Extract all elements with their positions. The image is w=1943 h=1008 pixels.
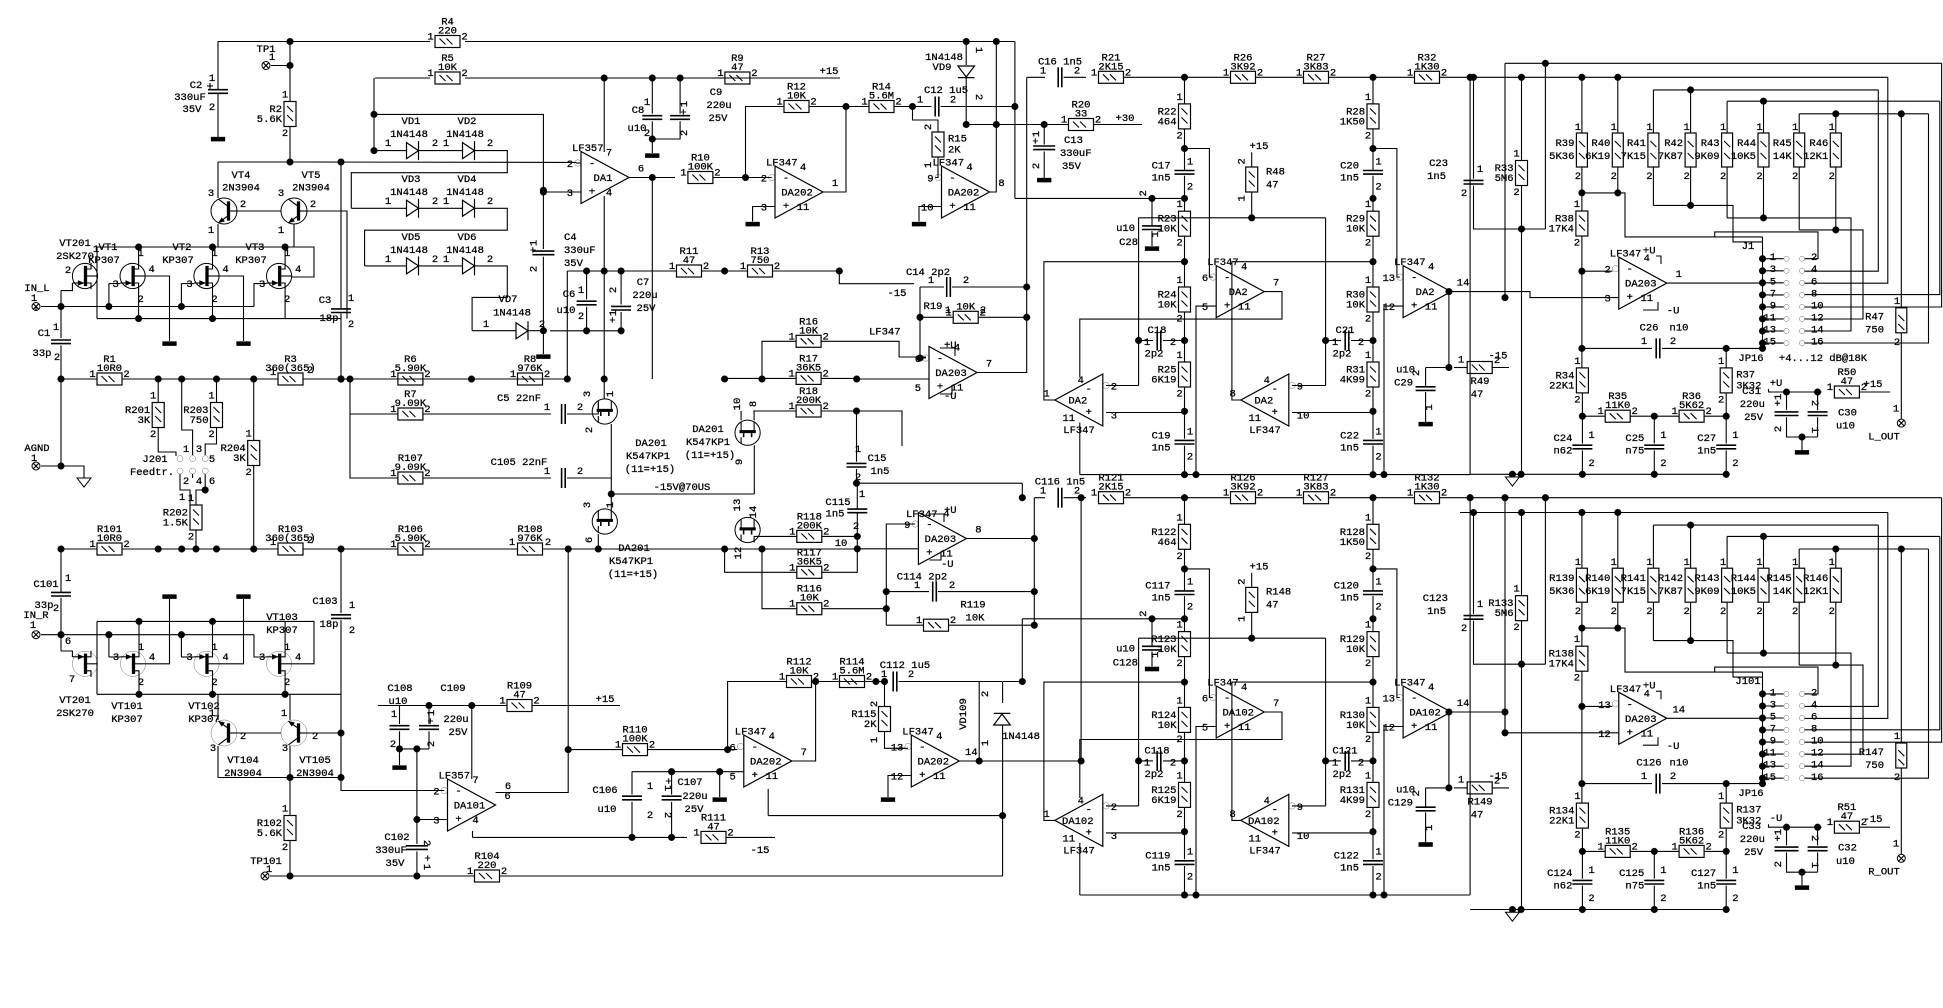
svg-text:C5 22nF: C5 22nF (497, 393, 541, 405)
svg-text:1: 1 (615, 740, 621, 752)
svg-text:4: 4 (1241, 682, 1247, 694)
svg-text:9: 9 (1297, 802, 1303, 814)
svg-text:(11=+15): (11=+15) (685, 450, 735, 462)
svg-text:10K5: 10K5 (1731, 151, 1756, 163)
svg-text:DA2: DA2 (1416, 287, 1435, 299)
svg-text:R139: R139 (1549, 573, 1574, 585)
svg-text:u10: u10 (1396, 364, 1415, 376)
svg-text:1: 1 (1407, 488, 1413, 500)
svg-text:14K: 14K (1773, 586, 1793, 598)
svg-text:2: 2 (1513, 622, 1519, 634)
svg-text:R_OUT: R_OUT (1868, 867, 1900, 879)
svg-text:C8: C8 (632, 105, 645, 117)
svg-text:3: 3 (433, 816, 439, 828)
svg-text:2: 2 (307, 535, 313, 547)
svg-text:DA201: DA201 (618, 543, 650, 555)
svg-text:9: 9 (1770, 300, 1776, 312)
svg-text:2K15: 2K15 (1098, 61, 1123, 73)
svg-text:2N3904: 2N3904 (296, 768, 334, 780)
svg-text:5.90K: 5.90K (395, 533, 427, 545)
svg-text:C17: C17 (1152, 160, 1171, 172)
svg-text:1: 1 (1808, 427, 1820, 433)
svg-text:-: - (1272, 384, 1278, 396)
svg-text:1: 1 (740, 261, 746, 273)
svg-text:2: 2 (1683, 606, 1689, 618)
svg-text:C27: C27 (1697, 433, 1716, 445)
svg-text:1: 1 (1296, 67, 1302, 79)
svg-text:1: 1 (914, 580, 920, 592)
svg-text:1N4148: 1N4148 (390, 187, 428, 199)
svg-text:47: 47 (707, 821, 720, 833)
svg-text:VT2: VT2 (173, 242, 192, 254)
svg-text:R40: R40 (1591, 138, 1610, 150)
svg-text:2: 2 (584, 427, 596, 433)
svg-text:1: 1 (1720, 122, 1726, 134)
svg-text:2: 2 (348, 319, 354, 331)
svg-text:1K30: 1K30 (1414, 482, 1439, 494)
svg-text:VD5: VD5 (402, 232, 421, 244)
svg-text:2: 2 (1365, 734, 1371, 746)
svg-text:C127: C127 (1691, 868, 1716, 880)
svg-text:6K19: 6K19 (1585, 586, 1610, 598)
svg-text:n75: n75 (1625, 881, 1644, 893)
svg-text:C108: C108 (387, 683, 412, 695)
svg-text:9: 9 (734, 459, 746, 465)
svg-text:DA201: DA201 (692, 424, 724, 436)
svg-text:1: 1 (1296, 488, 1302, 500)
svg-text:5K36: 5K36 (1549, 586, 1574, 598)
svg-text:47: 47 (683, 255, 696, 267)
svg-text:1: 1 (443, 254, 449, 266)
svg-text:+: + (919, 770, 925, 782)
svg-text:1: 1 (1808, 862, 1820, 868)
svg-text:11: 11 (1763, 312, 1776, 324)
svg-text:-: - (783, 173, 789, 185)
svg-text:2: 2 (577, 466, 583, 478)
svg-text:1: 1 (980, 740, 992, 746)
svg-text:14K: 14K (1773, 151, 1793, 163)
svg-text:47: 47 (731, 62, 744, 74)
svg-text:6: 6 (1202, 273, 1208, 285)
svg-text:14: 14 (1811, 760, 1824, 772)
svg-text:1: 1 (1893, 839, 1899, 851)
svg-text:2: 2 (390, 739, 396, 751)
svg-text:3: 3 (582, 502, 594, 508)
svg-text:K547KP1: K547KP1 (609, 556, 653, 568)
svg-text:+: + (1627, 292, 1633, 304)
svg-text:1: 1 (282, 804, 288, 816)
svg-text:(11=+15): (11=+15) (608, 569, 658, 581)
svg-text:5: 5 (1202, 723, 1208, 735)
svg-text:11: 11 (797, 202, 810, 214)
svg-text:10: 10 (1811, 736, 1824, 748)
svg-text:R144: R144 (1731, 573, 1756, 585)
svg-text:1: 1 (209, 708, 215, 720)
svg-text:1n5: 1n5 (1697, 881, 1716, 893)
svg-text:LF347: LF347 (1063, 845, 1095, 857)
svg-text:3: 3 (210, 743, 216, 755)
svg-text:R19: R19 (924, 301, 943, 313)
svg-text:2: 2 (529, 266, 541, 272)
svg-text:1: 1 (972, 47, 984, 53)
svg-text:10K: 10K (799, 325, 819, 337)
svg-text:1: 1 (349, 600, 355, 612)
svg-text:C28: C28 (1119, 237, 1138, 249)
svg-text:4: 4 (769, 731, 775, 743)
svg-text:5.6M: 5.6M (869, 91, 894, 103)
svg-text:1: 1 (1732, 430, 1738, 442)
svg-text:n10: n10 (1670, 323, 1689, 335)
svg-text:4: 4 (606, 188, 612, 200)
svg-text:7K15: 7K15 (1621, 586, 1646, 598)
svg-text:11: 11 (963, 202, 976, 214)
svg-text:1: 1 (669, 261, 675, 273)
svg-text:+: + (529, 247, 541, 253)
svg-text:u10: u10 (1116, 223, 1135, 235)
svg-text:LF347: LF347 (1610, 684, 1642, 696)
svg-text:1: 1 (1598, 406, 1604, 418)
svg-text:10K: 10K (966, 613, 986, 625)
svg-text:3: 3 (282, 743, 288, 755)
svg-text:1: 1 (679, 101, 691, 107)
svg-text:1: 1 (1756, 557, 1762, 569)
svg-text:2: 2 (1894, 772, 1900, 784)
svg-text:47: 47 (513, 690, 526, 702)
svg-text:C12 1u5: C12 1u5 (924, 85, 968, 97)
svg-text:-: - (1224, 693, 1230, 705)
svg-text:1: 1 (680, 168, 686, 180)
svg-text:1: 1 (1671, 406, 1677, 418)
svg-text:+: + (1086, 407, 1092, 419)
svg-text:5.6K: 5.6K (257, 114, 283, 126)
svg-text:1: 1 (427, 68, 433, 80)
svg-text:1N4148: 1N4148 (446, 187, 484, 199)
svg-text:R42: R42 (1664, 138, 1683, 150)
svg-text:-U: -U (1667, 741, 1680, 753)
svg-text:-15: -15 (888, 288, 907, 300)
svg-text:1: 1 (869, 737, 881, 743)
svg-text:1: 1 (390, 468, 396, 480)
svg-text:C128: C128 (1113, 657, 1138, 669)
svg-text:1: 1 (1732, 865, 1738, 877)
svg-text:11K0: 11K0 (1605, 835, 1630, 847)
svg-text:3: 3 (113, 652, 119, 664)
svg-text:2: 2 (647, 810, 653, 822)
svg-text:1: 1 (1574, 791, 1580, 803)
svg-text:1: 1 (30, 620, 36, 632)
svg-text:1: 1 (179, 492, 185, 504)
svg-text:2: 2 (1670, 771, 1676, 783)
svg-text:1: 1 (1646, 557, 1652, 569)
svg-text:6: 6 (638, 164, 644, 176)
svg-text:C103: C103 (312, 596, 337, 608)
svg-text:1N4148: 1N4148 (1002, 731, 1040, 743)
svg-text:1: 1 (89, 369, 95, 381)
svg-text:1: 1 (861, 97, 867, 109)
svg-text:-: - (926, 520, 932, 532)
svg-text:1: 1 (1176, 275, 1182, 287)
svg-text:-: - (1086, 804, 1092, 816)
svg-text:4: 4 (936, 731, 942, 743)
svg-text:2: 2 (1829, 171, 1835, 183)
svg-text:1N4148: 1N4148 (390, 129, 428, 141)
svg-text:1: 1 (281, 708, 287, 720)
svg-text:2: 2 (1611, 171, 1617, 183)
svg-text:1: 1 (1091, 67, 1097, 79)
svg-text:C20: C20 (1340, 160, 1359, 172)
svg-text:7K87: 7K87 (1658, 586, 1683, 598)
svg-text:2: 2 (240, 199, 246, 211)
svg-text:330uF: 330uF (174, 92, 206, 104)
svg-text:1: 1 (1477, 164, 1483, 176)
svg-text:1: 1 (608, 310, 620, 316)
svg-text:2: 2 (307, 365, 313, 377)
svg-text:2: 2 (608, 287, 620, 293)
svg-text:1: 1 (348, 293, 354, 305)
svg-text:14: 14 (1457, 278, 1470, 290)
svg-text:1: 1 (1375, 426, 1381, 438)
svg-text:2: 2 (1660, 458, 1666, 470)
svg-text:1: 1 (390, 404, 396, 416)
svg-text:10K: 10K (1346, 720, 1366, 732)
svg-text:2: 2 (487, 196, 493, 208)
svg-text:C22: C22 (1340, 430, 1359, 442)
svg-text:2: 2 (1811, 252, 1817, 264)
svg-text:3: 3 (208, 188, 214, 200)
svg-text:2: 2 (1187, 451, 1193, 463)
svg-text:1: 1 (1091, 488, 1097, 500)
svg-text:2: 2 (761, 174, 767, 186)
svg-text:C123: C123 (1423, 593, 1448, 605)
svg-text:1: 1 (832, 672, 838, 684)
svg-text:1: 1 (150, 391, 156, 403)
svg-text:4: 4 (1241, 262, 1247, 274)
svg-text:9: 9 (904, 520, 910, 532)
svg-text:+: + (752, 770, 758, 782)
svg-text:10K: 10K (1158, 720, 1178, 732)
svg-text:5.6K: 5.6K (257, 828, 283, 840)
svg-text:36K5: 36K5 (796, 362, 821, 374)
svg-text:R119: R119 (960, 600, 985, 612)
svg-text:1: 1 (1237, 616, 1249, 622)
svg-text:C33: C33 (1742, 821, 1761, 833)
svg-text:1: 1 (1598, 841, 1604, 853)
svg-text:3K: 3K (233, 453, 246, 465)
svg-text:8: 8 (975, 525, 981, 537)
svg-text:C107: C107 (677, 777, 702, 789)
svg-text:R47: R47 (1865, 312, 1884, 324)
svg-text:2: 2 (1718, 394, 1724, 406)
svg-text:2: 2 (1358, 337, 1364, 349)
svg-text:C31: C31 (1742, 386, 1761, 398)
svg-text:2: 2 (1237, 579, 1249, 585)
svg-text:330uF: 330uF (375, 845, 407, 857)
svg-text:12: 12 (1811, 312, 1824, 324)
svg-text:9K09: 9K09 (1694, 586, 1719, 598)
svg-text:C19: C19 (1152, 430, 1171, 442)
svg-text:1: 1 (1894, 296, 1900, 308)
svg-text:3: 3 (186, 652, 192, 664)
svg-text:+4...12 dB@18K: +4...12 dB@18K (1779, 353, 1868, 365)
svg-text:1: 1 (270, 367, 276, 379)
svg-text:R48: R48 (1266, 166, 1285, 178)
svg-text:4K99: 4K99 (1340, 795, 1365, 807)
svg-text:1K50: 1K50 (1340, 537, 1365, 549)
svg-text:1: 1 (578, 285, 584, 297)
svg-text:1: 1 (1827, 817, 1833, 829)
svg-text:-15V@70US: -15V@70US (654, 482, 711, 494)
svg-text:2K: 2K (864, 719, 877, 731)
svg-text:-: - (589, 159, 595, 171)
svg-text:2: 2 (1660, 893, 1666, 905)
svg-text:n62: n62 (1553, 881, 1572, 893)
svg-text:-: - (752, 742, 758, 754)
svg-text:1: 1 (1646, 122, 1652, 134)
svg-text:-15: -15 (1489, 771, 1508, 783)
svg-text:1: 1 (1574, 356, 1580, 368)
svg-text:11: 11 (1238, 722, 1251, 734)
svg-text:2: 2 (54, 352, 60, 364)
svg-text:1: 1 (1365, 92, 1371, 104)
svg-text:12K1: 12K1 (1803, 151, 1828, 163)
svg-text:4: 4 (1078, 795, 1084, 807)
svg-text:u10: u10 (1836, 856, 1855, 868)
svg-text:1: 1 (1176, 695, 1182, 707)
svg-text:1: 1 (391, 709, 397, 721)
svg-text:1: 1 (1365, 620, 1371, 632)
svg-text:11: 11 (1640, 728, 1653, 740)
svg-text:1: 1 (483, 319, 489, 331)
svg-text:7: 7 (1770, 724, 1776, 736)
svg-text:1: 1 (1332, 337, 1338, 349)
svg-text:2: 2 (1358, 757, 1364, 769)
svg-text:C102: C102 (384, 832, 409, 844)
svg-text:LF357: LF357 (439, 771, 471, 783)
svg-text:K547KP1: K547KP1 (686, 437, 730, 449)
svg-text:2: 2 (1513, 187, 1519, 199)
svg-text:2: 2 (545, 537, 551, 549)
svg-text:VT3: VT3 (246, 242, 265, 254)
svg-text:+U: +U (1770, 378, 1783, 390)
svg-text:3K: 3K (138, 415, 151, 427)
svg-text:1: 1 (1588, 865, 1594, 877)
svg-text:3: 3 (196, 444, 202, 456)
svg-text:R44: R44 (1737, 138, 1756, 150)
svg-text:-U: -U (941, 559, 954, 571)
svg-text:2: 2 (578, 311, 584, 323)
svg-text:VT201: VT201 (59, 238, 91, 250)
svg-text:464: 464 (1158, 116, 1177, 128)
svg-text:LF347: LF347 (1063, 425, 1095, 437)
svg-text:2: 2 (1187, 872, 1193, 884)
svg-text:DA203: DA203 (1625, 714, 1657, 726)
svg-text:C117: C117 (1145, 581, 1170, 593)
svg-text:2: 2 (188, 532, 194, 544)
svg-text:47: 47 (1471, 809, 1484, 821)
svg-text:4K99: 4K99 (1340, 375, 1365, 387)
svg-text:3: 3 (1770, 700, 1776, 712)
svg-text:14: 14 (1457, 698, 1470, 710)
svg-text:2: 2 (1829, 606, 1835, 618)
svg-text:DA202: DA202 (750, 757, 782, 769)
svg-text:3: 3 (259, 279, 265, 291)
svg-text:DA102: DA102 (1222, 708, 1254, 720)
svg-text:2: 2 (424, 369, 430, 381)
svg-text:2: 2 (282, 128, 288, 140)
svg-text:1: 1 (644, 97, 650, 109)
svg-text:2: 2 (432, 254, 438, 266)
svg-text:10: 10 (921, 203, 934, 215)
svg-text:1: 1 (605, 502, 617, 508)
svg-text:1: 1 (1720, 557, 1726, 569)
svg-text:+: + (679, 109, 691, 115)
svg-text:7: 7 (801, 747, 807, 759)
svg-text:+: + (1411, 301, 1417, 313)
svg-text:1: 1 (1827, 382, 1833, 394)
svg-text:2: 2 (1176, 809, 1182, 821)
svg-text:R149: R149 (1467, 796, 1492, 808)
svg-text:220u: 220u (1740, 399, 1765, 411)
svg-text:1n5: 1n5 (1152, 863, 1171, 875)
svg-text:+: + (937, 382, 943, 394)
svg-text:1: 1 (1718, 791, 1724, 803)
svg-text:10K: 10K (956, 301, 976, 313)
svg-text:2: 2 (1375, 181, 1381, 193)
svg-text:C115: C115 (825, 497, 850, 509)
svg-text:2: 2 (432, 196, 438, 208)
svg-text:1: 1 (1660, 865, 1666, 877)
svg-text:1: 1 (1144, 757, 1150, 769)
svg-text:VD4: VD4 (458, 174, 477, 186)
svg-text:11: 11 (1425, 722, 1438, 734)
svg-text:976K: 976K (517, 363, 543, 375)
svg-text:750: 750 (190, 415, 209, 427)
svg-text:2: 2 (65, 265, 71, 277)
svg-text:33: 33 (1075, 109, 1088, 121)
svg-text:3K92: 3K92 (1230, 61, 1255, 73)
svg-text:6: 6 (1202, 694, 1208, 706)
svg-text:2: 2 (1811, 687, 1817, 699)
svg-text:10: 10 (732, 398, 744, 411)
svg-text:2: 2 (1237, 158, 1249, 164)
svg-text:VT5: VT5 (302, 170, 321, 182)
svg-text:C120: C120 (1334, 581, 1359, 593)
svg-text:C119: C119 (1145, 851, 1170, 863)
svg-text:KP307: KP307 (88, 255, 120, 267)
svg-text:2: 2 (1170, 757, 1176, 769)
svg-text:220: 220 (438, 26, 457, 38)
svg-text:C109: C109 (440, 683, 465, 695)
svg-text:-: - (1627, 699, 1633, 711)
svg-text:R43: R43 (1701, 138, 1720, 150)
svg-text:2: 2 (751, 68, 757, 80)
svg-text:VD1: VD1 (402, 116, 421, 128)
svg-text:4: 4 (1428, 262, 1434, 274)
svg-text:4: 4 (1811, 700, 1817, 712)
svg-text:DA203: DA203 (1625, 279, 1657, 291)
svg-text:2: 2 (963, 275, 969, 287)
svg-text:1: 1 (1365, 350, 1371, 362)
svg-text:1: 1 (270, 537, 276, 549)
svg-text:C15: C15 (868, 453, 887, 465)
svg-text:2: 2 (487, 254, 493, 266)
svg-text:C4: C4 (564, 232, 577, 244)
svg-text:C23: C23 (1429, 158, 1448, 170)
svg-text:-: - (455, 786, 461, 798)
svg-text:1: 1 (1176, 92, 1182, 104)
svg-text:1n5: 1n5 (1427, 606, 1446, 618)
svg-text:u10: u10 (1836, 421, 1855, 433)
